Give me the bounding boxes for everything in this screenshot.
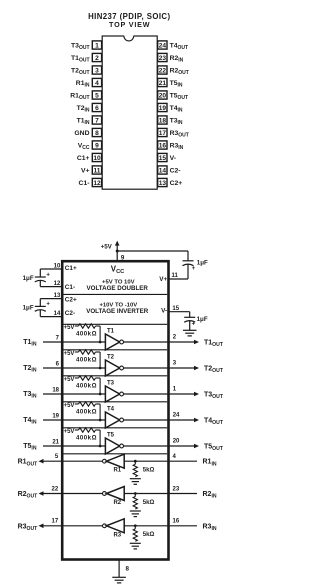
T4 output arrow bbox=[194, 418, 199, 423]
receiver R1 inverting bubble bbox=[103, 459, 107, 463]
wire T3 input bbox=[43, 393, 106, 395]
svg-text:T4IN: T4IN bbox=[170, 105, 183, 114]
svg-text:+5V: +5V bbox=[64, 351, 75, 357]
svg-text:4: 4 bbox=[173, 454, 177, 460]
pin 14 stub wire bbox=[40, 316, 63, 318]
T3 output arrow bbox=[194, 392, 199, 397]
capacitor C1 1uF wires bbox=[39, 269, 41, 277]
buffer T2 inverting bubble bbox=[120, 366, 124, 370]
svg-text:T4OUT: T4OUT bbox=[170, 42, 189, 51]
svg-text:C1-: C1- bbox=[79, 180, 90, 187]
wire R2 input bbox=[124, 493, 197, 495]
wire +5V to resistor T2 bbox=[75, 351, 79, 353]
svg-text:18: 18 bbox=[52, 388, 59, 394]
svg-text:R3OUT: R3OUT bbox=[18, 523, 39, 532]
svg-text:T1OUT: T1OUT bbox=[204, 340, 224, 349]
ground symbol at R2 bbox=[130, 510, 141, 512]
svg-text:T2IN: T2IN bbox=[23, 365, 37, 374]
pin 10 stub wire bbox=[40, 268, 63, 270]
svg-text:14: 14 bbox=[159, 167, 167, 174]
svg-text:8: 8 bbox=[126, 566, 130, 573]
svg-text:+5V: +5V bbox=[101, 243, 113, 250]
svg-text:5: 5 bbox=[95, 92, 99, 99]
main IC block outline bbox=[62, 261, 168, 559]
pin 12 stub wire bbox=[40, 286, 63, 288]
divider below T3 bbox=[64, 401, 168, 403]
svg-text:1μF: 1μF bbox=[23, 275, 34, 282]
receiver R3 inverting bubble bbox=[103, 524, 107, 528]
svg-text:5kΩ: 5kΩ bbox=[143, 532, 155, 538]
R1 output arrow bbox=[39, 459, 44, 464]
pin 14 box bbox=[158, 166, 167, 174]
svg-text:16: 16 bbox=[159, 142, 167, 149]
pin 1 box bbox=[92, 41, 101, 49]
resistor 5k R3 bbox=[134, 526, 136, 529]
svg-text:15: 15 bbox=[159, 155, 167, 162]
capacitor C2 1uF wires bbox=[39, 299, 41, 307]
svg-text:10: 10 bbox=[93, 155, 101, 162]
capacitor C4 1uF bbox=[184, 316, 195, 318]
T2 output arrow bbox=[194, 366, 199, 371]
wire R1 input bbox=[124, 460, 197, 462]
buffer T2 triangle bbox=[105, 360, 119, 376]
wire resistor elbow T2 bbox=[96, 351, 101, 353]
svg-text:+: + bbox=[192, 266, 196, 272]
svg-text:R1IN: R1IN bbox=[203, 459, 217, 468]
pin 19 box bbox=[158, 103, 167, 111]
buffer T4 triangle bbox=[105, 412, 119, 428]
svg-text:T2IN: T2IN bbox=[77, 105, 90, 114]
divider inverter bottom bbox=[64, 323, 168, 325]
svg-text:3: 3 bbox=[95, 67, 99, 74]
wire R3 input bbox=[124, 525, 197, 527]
svg-text:2: 2 bbox=[173, 335, 177, 341]
svg-text:C1+: C1+ bbox=[77, 155, 90, 162]
svg-text:2: 2 bbox=[95, 55, 99, 62]
svg-text:400kΩ: 400kΩ bbox=[76, 383, 97, 390]
svg-text:TOP VIEW: TOP VIEW bbox=[109, 20, 150, 29]
svg-text:R1IN: R1IN bbox=[76, 80, 90, 89]
pin 22 box bbox=[158, 66, 167, 74]
divider doubler/inverter bbox=[64, 293, 168, 295]
resistor 5k R1 bbox=[134, 461, 136, 464]
svg-text:+: + bbox=[46, 301, 50, 307]
divider below T2 bbox=[64, 375, 168, 377]
svg-text:23: 23 bbox=[173, 486, 180, 492]
capacitor C3 1uF bbox=[183, 260, 194, 262]
svg-text:T5IN: T5IN bbox=[23, 443, 37, 452]
svg-text:R3IN: R3IN bbox=[170, 142, 184, 151]
svg-text:T1IN: T1IN bbox=[77, 117, 90, 126]
svg-text:+5V: +5V bbox=[64, 325, 75, 331]
receiver R1 triangle bbox=[106, 454, 124, 468]
pin 15 box bbox=[158, 153, 167, 161]
svg-text:R1OUT: R1OUT bbox=[70, 92, 89, 101]
node junction T1 input bbox=[99, 341, 102, 344]
pin 2 box bbox=[92, 53, 101, 61]
svg-text:T4OUT: T4OUT bbox=[204, 418, 224, 427]
ground symbol main bbox=[112, 576, 126, 578]
R3 output arrow bbox=[39, 524, 44, 529]
wire T2 output bbox=[124, 367, 195, 369]
svg-text:19: 19 bbox=[159, 105, 167, 112]
svg-text:C2+: C2+ bbox=[170, 180, 183, 187]
R2 output arrow bbox=[39, 491, 44, 496]
pin 11 box bbox=[92, 166, 101, 174]
wire T1 output bbox=[124, 341, 195, 343]
svg-text:GND: GND bbox=[74, 130, 89, 137]
node junction T2 input bbox=[99, 367, 102, 370]
capacitor C4 1uF wires bbox=[189, 312, 191, 318]
resistor 400k T1 bbox=[79, 324, 96, 328]
svg-text:400kΩ: 400kΩ bbox=[76, 435, 97, 442]
receiver R2 inverting bubble bbox=[103, 492, 107, 496]
wire resistor elbow T3 bbox=[96, 377, 101, 379]
buffer T5 inverting bubble bbox=[120, 444, 124, 448]
pin 12 box bbox=[92, 178, 101, 186]
svg-text:12: 12 bbox=[54, 281, 61, 287]
capacitor C1 1uF bbox=[35, 276, 46, 278]
resistor 400k T2 bbox=[79, 350, 96, 354]
svg-text:13: 13 bbox=[159, 180, 167, 187]
node junction T3 input bbox=[99, 393, 102, 396]
wire T4 output bbox=[124, 419, 195, 421]
svg-text:15: 15 bbox=[172, 306, 179, 312]
svg-text:R2OUT: R2OUT bbox=[18, 491, 39, 500]
divider below T1 bbox=[64, 349, 168, 351]
pin 7 box bbox=[92, 116, 101, 124]
svg-text:T3IN: T3IN bbox=[23, 391, 37, 400]
IC package body U1 top view bbox=[102, 36, 157, 189]
svg-text:1μF: 1μF bbox=[197, 260, 208, 267]
pin 13 stub wire bbox=[40, 298, 63, 300]
svg-text:T5: T5 bbox=[107, 433, 115, 439]
wire T4 input bbox=[43, 419, 106, 421]
svg-text:1: 1 bbox=[173, 387, 177, 393]
svg-text:V+: V+ bbox=[159, 276, 167, 283]
svg-text:T2: T2 bbox=[107, 355, 115, 361]
capacitor C2 1uF bbox=[35, 305, 46, 307]
svg-text:4: 4 bbox=[95, 80, 99, 87]
wire +5V to resistor T1 bbox=[75, 325, 79, 327]
svg-text:18: 18 bbox=[159, 117, 167, 124]
receiver R2 triangle bbox=[106, 487, 124, 501]
svg-text:11: 11 bbox=[94, 167, 101, 174]
svg-text:11: 11 bbox=[172, 273, 179, 279]
svg-text:R2IN: R2IN bbox=[170, 55, 184, 64]
svg-text:R2OUT: R2OUT bbox=[170, 67, 189, 76]
svg-text:R3IN: R3IN bbox=[203, 523, 217, 532]
svg-text:T4IN: T4IN bbox=[23, 417, 37, 426]
svg-text:1μF: 1μF bbox=[23, 304, 34, 311]
svg-text:21: 21 bbox=[159, 80, 167, 87]
pin 13 box bbox=[158, 178, 167, 186]
svg-text:+5V: +5V bbox=[64, 377, 75, 383]
pin 10 box bbox=[92, 153, 101, 161]
wire +5V to resistor T5 bbox=[75, 429, 79, 431]
svg-text:21: 21 bbox=[52, 440, 59, 446]
divider below T5 bbox=[64, 453, 168, 455]
node junction R1 input bbox=[134, 460, 137, 463]
svg-text:3: 3 bbox=[173, 361, 177, 367]
T5 output arrow bbox=[194, 444, 199, 449]
svg-text:7: 7 bbox=[56, 336, 60, 342]
svg-text:+: + bbox=[192, 322, 196, 328]
T1 output arrow bbox=[194, 340, 199, 345]
buffer T1 triangle bbox=[105, 334, 119, 350]
wire T3 output bbox=[124, 393, 195, 395]
svg-text:6: 6 bbox=[95, 105, 99, 112]
wire GND pin 8 bbox=[118, 561, 120, 578]
svg-text:T2OUT: T2OUT bbox=[204, 366, 224, 375]
svg-text:5kΩ: 5kΩ bbox=[143, 468, 155, 474]
svg-text:+: + bbox=[46, 273, 50, 279]
svg-text:24: 24 bbox=[159, 42, 167, 49]
ground symbol at R1 bbox=[130, 478, 141, 480]
receiver R3 triangle bbox=[106, 519, 124, 533]
svg-text:T1OUT: T1OUT bbox=[71, 55, 90, 64]
wire +5V to resistor T3 bbox=[75, 377, 79, 379]
svg-text:T1: T1 bbox=[107, 329, 115, 335]
svg-text:T3: T3 bbox=[107, 381, 115, 387]
svg-text:20: 20 bbox=[159, 92, 167, 99]
buffer T3 triangle bbox=[105, 386, 119, 402]
svg-text:R2: R2 bbox=[113, 500, 121, 506]
svg-text:400kΩ: 400kΩ bbox=[76, 331, 97, 338]
node junction R2 input bbox=[134, 492, 137, 495]
svg-text:22: 22 bbox=[52, 486, 59, 492]
wire +5V to resistor T4 bbox=[75, 403, 79, 405]
svg-text:T3OUT: T3OUT bbox=[71, 42, 90, 51]
svg-text:V-: V- bbox=[170, 155, 176, 162]
+5V arrow up bbox=[115, 241, 120, 246]
pin 20 box bbox=[158, 91, 167, 99]
svg-text:1μF: 1μF bbox=[197, 316, 208, 323]
svg-text:VCC: VCC bbox=[111, 264, 124, 275]
wire T5 input bbox=[43, 445, 106, 447]
svg-text:T3IN: T3IN bbox=[170, 117, 183, 126]
resistor 5k R2 bbox=[134, 494, 136, 497]
wire R3 output bbox=[40, 525, 103, 527]
pin 11 stub wire bbox=[168, 278, 188, 280]
pin 5 box bbox=[92, 91, 101, 99]
ground symbol at C4 bbox=[183, 329, 197, 331]
svg-text:V+: V+ bbox=[81, 167, 90, 174]
svg-text:19: 19 bbox=[52, 414, 59, 420]
pin 6 box bbox=[92, 103, 101, 111]
svg-text:T4: T4 bbox=[107, 407, 115, 413]
svg-text:16: 16 bbox=[173, 519, 180, 525]
svg-text:V-: V- bbox=[161, 308, 167, 315]
svg-text:23: 23 bbox=[159, 55, 167, 62]
svg-text:VOLTAGE DOUBLER: VOLTAGE DOUBLER bbox=[87, 285, 149, 292]
buffer T1 inverting bubble bbox=[120, 340, 124, 344]
node junction R3 input bbox=[134, 524, 137, 527]
svg-text:R3OUT: R3OUT bbox=[170, 130, 189, 139]
resistor 400k T3 bbox=[79, 376, 96, 380]
package pin-1 notch bbox=[124, 35, 133, 37]
pin 8 box bbox=[92, 128, 101, 136]
pin 24 box bbox=[158, 41, 167, 49]
svg-text:+5V: +5V bbox=[64, 429, 75, 435]
svg-text:T2OUT: T2OUT bbox=[71, 67, 90, 76]
svg-text:1: 1 bbox=[95, 42, 99, 49]
pin 4 box bbox=[92, 78, 101, 86]
svg-text:9: 9 bbox=[121, 254, 125, 261]
svg-text:T5IN: T5IN bbox=[170, 80, 183, 89]
svg-text:17: 17 bbox=[159, 130, 167, 137]
wire +5V vertical to VCC pin 9 bbox=[116, 245, 118, 262]
ground symbol at R3 bbox=[130, 542, 141, 544]
svg-text:T5OUT: T5OUT bbox=[204, 444, 224, 453]
svg-text:400kΩ: 400kΩ bbox=[76, 357, 97, 364]
svg-text:6: 6 bbox=[56, 362, 60, 368]
pin 18 box bbox=[158, 116, 167, 124]
buffer T5 triangle bbox=[105, 438, 119, 454]
svg-text:R1OUT: R1OUT bbox=[18, 459, 39, 468]
wire +5V to V+ capacitor bbox=[117, 250, 188, 252]
svg-text:T1IN: T1IN bbox=[23, 339, 37, 348]
wire R2 output bbox=[40, 493, 103, 495]
svg-text:5: 5 bbox=[55, 454, 59, 460]
svg-text:9: 9 bbox=[95, 142, 99, 149]
svg-text:C2+: C2+ bbox=[65, 297, 77, 304]
pin 9 box bbox=[92, 141, 101, 149]
pin 16 box bbox=[158, 141, 167, 149]
svg-text:24: 24 bbox=[173, 413, 180, 419]
svg-text:R2IN: R2IN bbox=[203, 491, 217, 500]
pin 21 box bbox=[158, 78, 167, 86]
svg-text:20: 20 bbox=[173, 439, 180, 445]
wire resistor elbow T4 bbox=[96, 403, 101, 405]
svg-text:+5V: +5V bbox=[64, 403, 75, 409]
pin 17 box bbox=[158, 128, 167, 136]
divider below T4 bbox=[64, 427, 168, 429]
svg-text:5kΩ: 5kΩ bbox=[143, 500, 155, 506]
wire T2 input bbox=[43, 367, 106, 369]
svg-text:C1+: C1+ bbox=[65, 265, 77, 272]
svg-text:C2-: C2- bbox=[65, 310, 75, 317]
svg-text:R3: R3 bbox=[113, 532, 121, 538]
resistor 400k T5 bbox=[79, 428, 96, 432]
svg-text:10: 10 bbox=[54, 263, 61, 269]
svg-text:R1: R1 bbox=[113, 468, 121, 474]
wire resistor elbow T1 bbox=[96, 325, 101, 327]
svg-text:T3OUT: T3OUT bbox=[204, 392, 224, 401]
pin 23 box bbox=[158, 53, 167, 61]
svg-text:13: 13 bbox=[54, 293, 61, 299]
capacitor C3 1uF wires bbox=[187, 264, 189, 279]
pin 15 stub wire bbox=[168, 311, 190, 313]
buffer T3 inverting bubble bbox=[120, 392, 124, 396]
svg-text:22: 22 bbox=[159, 67, 167, 74]
buffer T4 inverting bubble bbox=[120, 418, 124, 422]
svg-text:C2-: C2- bbox=[170, 167, 181, 174]
svg-text:7: 7 bbox=[95, 117, 99, 124]
svg-text:C1-: C1- bbox=[65, 284, 75, 291]
svg-text:17: 17 bbox=[52, 519, 59, 525]
node junction T5 input bbox=[99, 445, 102, 448]
resistor 400k T4 bbox=[79, 402, 96, 406]
svg-text:12: 12 bbox=[93, 180, 101, 187]
wire T1 input bbox=[43, 341, 106, 343]
svg-text:14: 14 bbox=[54, 311, 61, 317]
wire T5 output bbox=[124, 445, 195, 447]
svg-text:VCC: VCC bbox=[78, 142, 90, 151]
svg-text:400kΩ: 400kΩ bbox=[76, 409, 97, 416]
node junction T4 input bbox=[99, 419, 102, 422]
svg-text:T5OUT: T5OUT bbox=[170, 92, 189, 101]
wire resistor elbow T5 bbox=[96, 429, 101, 431]
node junction +5V bbox=[116, 250, 119, 253]
svg-text:8: 8 bbox=[95, 130, 99, 137]
pin 3 box bbox=[92, 66, 101, 74]
svg-text:VOLTAGE INVERTER: VOLTAGE INVERTER bbox=[86, 308, 149, 315]
wire R1 output bbox=[40, 460, 103, 462]
